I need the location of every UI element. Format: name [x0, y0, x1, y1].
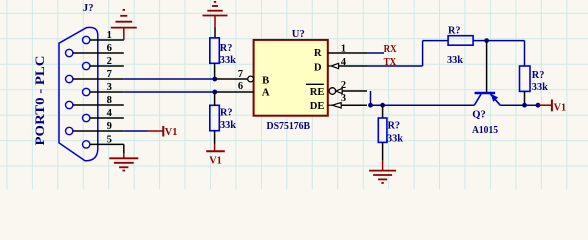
svg-text:RX: RX — [384, 44, 397, 55]
svg-text:9: 9 — [107, 121, 112, 132]
pin name B — [262, 76, 269, 87]
svg-text:33k: 33k — [220, 120, 236, 131]
resistor R2 33k (pull to V1 on A line) — [210, 105, 220, 130]
wire R1 to node B — [214, 63, 216, 79]
wire R4 to emitter net — [524, 91, 526, 105]
wire R2 to V1 port — [214, 131, 216, 152]
junction RE/DE tie — [368, 103, 373, 108]
connector J? (DB9 PORT0-PLC) — [59, 27, 98, 160]
svg-text:R?: R? — [388, 121, 401, 132]
ground G4 (below R5) — [369, 171, 396, 183]
ground G2 (pin 5) — [109, 158, 138, 170]
svg-text:6: 6 — [238, 81, 243, 92]
pin name R — [314, 48, 322, 59]
svg-text:1: 1 — [107, 30, 112, 41]
wire tap down to R5 — [382, 105, 384, 118]
wire net RX from pin 1 — [367, 52, 384, 54]
net label RX — [384, 44, 397, 55]
value 33k of R2 — [220, 120, 236, 131]
net label TX — [384, 57, 397, 68]
svg-text:PORT0 - PLC: PORT0 - PLC — [32, 55, 47, 145]
svg-text:J?: J? — [83, 3, 94, 14]
label Q? — [472, 109, 486, 120]
svg-text:D: D — [314, 62, 322, 73]
svg-text:1: 1 — [341, 44, 346, 55]
wire pin5 to ground — [123, 144, 125, 158]
wire node A to R2 — [214, 92, 216, 105]
svg-text:5: 5 — [107, 134, 112, 145]
ground G1 (pin 1, inverted) — [111, 10, 137, 28]
resistor R5 33k (RE/DE pulldown) — [378, 118, 387, 142]
resistor R1 33k (pull to GND on B line) — [210, 38, 220, 63]
resistor R4 33k (base-emitter) — [520, 66, 531, 91]
pin 7 of J? — [73, 69, 124, 80]
junction V1 connection — [536, 103, 541, 108]
svg-text:R?: R? — [532, 70, 545, 81]
svg-text:R?: R? — [448, 25, 461, 36]
pin name A — [262, 87, 270, 98]
pin name DE — [310, 101, 325, 112]
label R? of R5 — [388, 121, 401, 132]
svg-text:V1: V1 — [165, 127, 178, 138]
svg-text:RE: RE — [310, 87, 325, 98]
label R? of R2 — [220, 108, 233, 119]
label U? — [292, 29, 305, 40]
label A1015 — [472, 125, 498, 136]
junction R4 bottom on emitter net — [522, 103, 527, 108]
wire net B: J? pin7 to U? pin7 — [124, 78, 216, 80]
label R? of R1 — [220, 43, 233, 54]
svg-text:Q?: Q? — [472, 109, 486, 120]
wire DE net to collector of Q? — [371, 104, 475, 106]
ground G3 (top middle, inverted) — [203, 2, 228, 16]
svg-text:TX: TX — [384, 57, 397, 68]
wire pin1 to ground — [123, 28, 125, 40]
wire R5 to ground — [382, 142, 384, 170]
wire R3 to base node — [473, 40, 524, 42]
wire RE pin down to DE net — [370, 91, 372, 105]
svg-text:6: 6 — [107, 43, 112, 54]
junction R5 tap — [380, 103, 385, 108]
svg-text:33k: 33k — [387, 134, 403, 145]
value 33k of R5 — [387, 134, 403, 145]
wire ground to R1 — [214, 16, 216, 38]
svg-text:A: A — [262, 87, 270, 98]
pin 1 of J? — [90, 30, 124, 41]
pin name D — [314, 62, 322, 73]
junction node B (R1 / pin7 wire) — [212, 77, 217, 82]
label PORT0 - PLC — [32, 55, 47, 145]
wire net TX from pin 4 — [367, 41, 448, 66]
power port V1 (right) — [538, 100, 566, 114]
power port V1 (bottom) — [206, 151, 225, 166]
svg-text:B: B — [262, 76, 269, 87]
junction node A (R2 / pin3 wire) — [212, 90, 217, 95]
pin 4 of J? — [90, 108, 124, 119]
op-amp/IC U? DS75176B body — [254, 40, 328, 116]
svg-text:3: 3 — [341, 93, 346, 104]
pin name RE (with overline) — [306, 84, 325, 98]
pin 2 of J? — [90, 56, 124, 67]
pin 4 (D) of U? with input triangle — [328, 57, 367, 69]
junction base node — [484, 38, 489, 43]
svg-text:R?: R? — [220, 108, 233, 119]
svg-text:2: 2 — [107, 56, 112, 67]
svg-text:33k: 33k — [447, 55, 463, 66]
svg-text:3: 3 — [107, 82, 112, 93]
pin 3 of J? — [90, 82, 124, 93]
svg-text:7: 7 — [107, 69, 113, 80]
pin 1 (R) of U? — [328, 44, 367, 55]
svg-text:DE: DE — [310, 101, 325, 112]
svg-text:4: 4 — [107, 108, 113, 119]
value 33k of R1 — [220, 55, 236, 66]
label DS75176B — [267, 121, 311, 132]
value 33k of R4 — [532, 82, 548, 93]
svg-text:V1: V1 — [209, 156, 222, 167]
pin 9 of J? — [73, 121, 124, 132]
wire J? pin9 to V1 — [124, 130, 148, 132]
svg-text:R: R — [314, 48, 322, 59]
pin 5 of J? — [90, 134, 124, 145]
pin 6 of J? — [73, 43, 124, 54]
wire base of Q? — [486, 41, 488, 92]
pin 3 (DE) of U? with triangle — [328, 93, 367, 108]
pin 6 (A) of U? — [215, 81, 253, 92]
wire net A: J? pin3 to U? pin6 — [124, 91, 216, 93]
svg-text:R?: R? — [220, 43, 233, 54]
svg-text:33k: 33k — [532, 82, 548, 93]
transistor Q? A1015 (PNP) — [474, 93, 500, 105]
value 33k of R3 — [447, 55, 463, 66]
pin 7 (B) of U? with bubble — [215, 69, 253, 82]
svg-text:V1: V1 — [554, 102, 567, 113]
svg-text:7: 7 — [238, 69, 243, 80]
label R? of R3 — [448, 25, 461, 36]
pin 8 of J? — [73, 95, 124, 106]
wire emitter of Q? to V1 — [500, 104, 538, 106]
svg-text:8: 8 — [107, 95, 112, 106]
svg-text:33k: 33k — [220, 55, 236, 66]
svg-text:U?: U? — [292, 29, 305, 40]
label R? of R4 — [532, 70, 545, 81]
pin 2 (RE) of U? with bubble and triangle — [329, 80, 367, 94]
svg-text:2: 2 — [341, 80, 346, 91]
svg-text:DS75176B: DS75176B — [267, 121, 311, 132]
svg-text:A1015: A1015 — [472, 125, 498, 136]
power port V1 (left) — [148, 126, 178, 138]
label J? — [83, 3, 94, 14]
resistor R3 33k (horizontal, base drive) — [448, 36, 473, 46]
svg-text:4: 4 — [341, 57, 346, 68]
wire top net down to R4 — [524, 41, 526, 66]
